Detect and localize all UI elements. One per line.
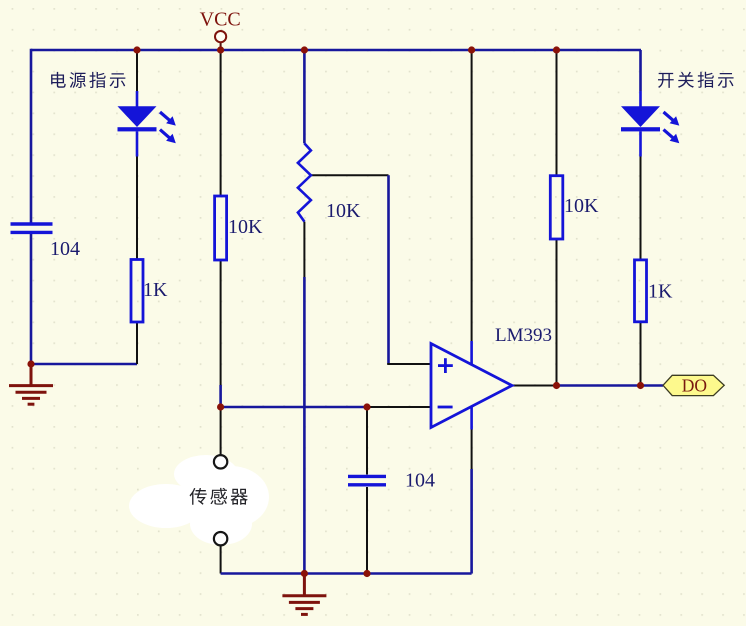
wire top VCC rail (31, 49, 641, 52)
junction dot minus node (217, 403, 224, 410)
wire R4 bottom (640, 322, 642, 386)
sensor label cloud (129, 455, 269, 545)
wire LED2 anode (639, 50, 642, 91)
svg-text:VCC: VCC (200, 9, 241, 31)
wire R3 top (556, 50, 558, 176)
wire sensor top pin (220, 407, 222, 455)
LED D1 (118, 91, 157, 157)
svg-text:104: 104 (50, 238, 80, 260)
op-amp plus sign (438, 364, 453, 367)
LED D2 (621, 91, 660, 157)
resistor R4 1K (635, 260, 647, 322)
wire plus input (387, 363, 431, 365)
label 开关指示 (658, 72, 734, 88)
port DO flag (663, 375, 724, 395)
junction dot output-R3 (553, 382, 560, 389)
wire R3 bottom (556, 239, 558, 386)
svg-text:10K: 10K (564, 195, 599, 217)
LED D1 light arrows (160, 112, 176, 143)
junction dot rail-R3 (553, 46, 560, 53)
wire sensor bottom pin (220, 546, 222, 574)
junction dot C2 bottom (363, 570, 370, 577)
svg-text:104: 104 (405, 470, 435, 492)
wire R1 bottom to minus node (220, 260, 222, 385)
svg-text:1K: 1K (143, 279, 168, 301)
capacitor C1 104 (11, 224, 53, 232)
sensor pin 1 (214, 455, 227, 468)
wire op-amp GND pin feed (471, 429, 473, 469)
junction dot rail-opamp (468, 46, 475, 53)
op-amp U1 LM393 (431, 344, 512, 428)
junction dot pot-bottom (301, 570, 308, 577)
sensor pin 2 (214, 532, 227, 545)
resistor R3 10K (550, 176, 563, 239)
op-amp U1 pins (470, 341, 473, 365)
ground symbol G2 (282, 574, 326, 615)
power port VCC (215, 31, 226, 49)
svg-text:DO: DO (682, 375, 707, 395)
wire LED1 anode (136, 50, 138, 91)
wire C2 bottom (366, 487, 368, 574)
wire LED2 cathode to R4 (640, 156, 642, 260)
wire left vertical (C1 branch) (30, 49, 33, 223)
wire op-amp VCC pin feed (471, 50, 473, 341)
junction dot rail-VCC (217, 46, 224, 53)
wire C2 top (366, 407, 368, 475)
wire pot bottom (303, 222, 305, 277)
svg-text:LM393: LM393 (495, 325, 552, 346)
resistor R1 10K (215, 196, 227, 260)
wire bottom ground rail (221, 572, 472, 575)
wire op-amp output (512, 385, 557, 387)
LED D2 light arrows (664, 112, 680, 143)
wire LED1 cathode to R2 (136, 156, 138, 260)
svg-text:1K: 1K (648, 281, 673, 303)
wire pot top (303, 50, 306, 143)
wire pot wiper horizontal (311, 174, 389, 176)
junction dot gnd1 (27, 360, 34, 367)
potentiometer RP1 10K zigzag (298, 143, 311, 221)
junction dot rail-LED1 (133, 46, 140, 53)
label 传感器 (190, 488, 248, 505)
resistor R2 1K (131, 260, 143, 323)
wire R2 bottom (136, 322, 138, 364)
wire gnd1 horizontal (31, 363, 137, 366)
svg-text:10K: 10K (326, 200, 361, 222)
label 电源指示 (51, 72, 125, 88)
wire wiper vertical (387, 175, 390, 364)
capacitor C2 104 (348, 476, 386, 484)
wire minus bus (221, 406, 367, 409)
wire VCC to R1 (220, 50, 222, 196)
junction dot output-R4 (637, 382, 644, 389)
ground symbol G1 (9, 364, 53, 404)
svg-text:10K: 10K (228, 216, 263, 238)
op-amp minus sign (438, 406, 453, 409)
junction dot C2 top (363, 403, 370, 410)
junction dot rail-pot (301, 46, 308, 53)
